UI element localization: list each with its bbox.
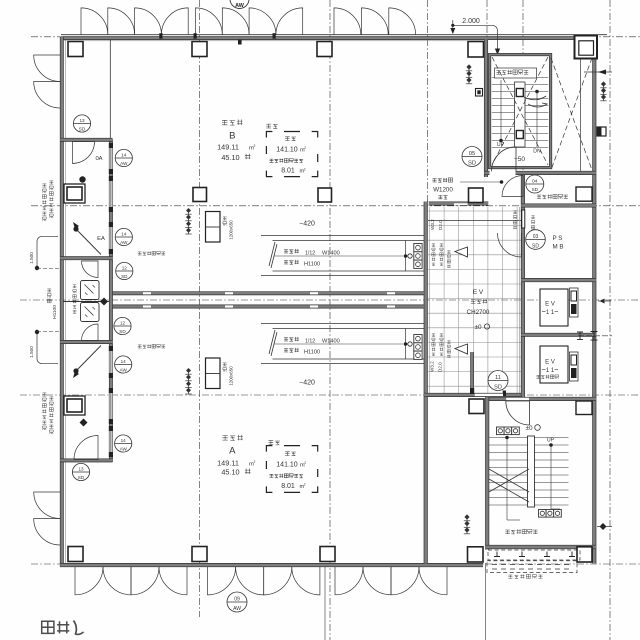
svg-text:2: 2: [304, 461, 306, 465]
svg-text:A: A: [229, 446, 236, 457]
arrow marker right mid: [600, 299, 605, 304]
svg-text:W1400: W1400: [322, 251, 340, 257]
svg-text:CH2700: CH2700: [467, 309, 490, 316]
svg-text:12: 12: [122, 265, 128, 270]
dot above equipment: [79, 176, 85, 182]
svg-text:03: 03: [533, 234, 539, 240]
column alarm room: [576, 187, 592, 201]
svg-text:B: B: [229, 131, 235, 142]
circle AW top edge: [230, 0, 249, 9]
top exterior wall: [61, 34, 607, 36]
svg-text:2: 2: [254, 144, 256, 148]
stairS treads: [489, 437, 569, 439]
svg-text:SD: SD: [531, 187, 538, 193]
AW window upper-1: [109, 143, 114, 174]
corridor top wall: [429, 202, 489, 205]
sink box A: [206, 358, 221, 389]
grid line vertical x=428: [427, 0, 429, 203]
svg-text:M B: M B: [553, 244, 564, 251]
label mainte vert lower: [42, 393, 46, 396]
EV2 kuruma label: [536, 375, 540, 378]
stairS X cross: [489, 469, 529, 492]
EA door diagonal lower: [76, 346, 102, 372]
stairN swirl arrows: [524, 96, 547, 107]
column porch SE: [469, 399, 484, 414]
dim leader lower-left: [37, 334, 58, 364]
svg-text:2: 2: [304, 146, 306, 150]
stairN cage: [490, 55, 551, 168]
svg-text:SD: SD: [468, 161, 476, 167]
circle 13/SD bottom: [72, 463, 89, 480]
grid line vertical x=610: [609, 0, 611, 640]
circle 11/SD: [488, 371, 508, 391]
svg-text:14: 14: [121, 359, 127, 364]
diamond stack right: [603, 82, 605, 101]
stairS bottom wall: [486, 545, 597, 549]
label wc vert: [73, 285, 77, 288]
strip cross wall 2: [60, 257, 112, 260]
sprinkler stack porch bottom: [466, 515, 468, 534]
svg-text:D2.0: D2.0: [438, 220, 443, 230]
circle 04/SD: [526, 175, 544, 193]
door arcs left wall bottom: [34, 492, 61, 519]
corridor W1200 label: [432, 179, 436, 183]
svg-text:AW: AW: [120, 161, 128, 166]
svg-text:SD: SD: [78, 475, 85, 480]
column mid A: [193, 188, 207, 202]
svg-text:1 1: 1 1: [546, 310, 555, 316]
svg-text:12: 12: [120, 320, 126, 325]
party wall upper: [110, 292, 424, 295]
entrance door arcs bottom wall: [75, 567, 103, 595]
stair-north west wall: [484, 40, 487, 178]
label madori: [42, 621, 54, 633]
svg-text:1/12: 1/12: [305, 251, 315, 257]
right block west wall: [521, 171, 524, 397]
grid line horizontal y=564: [31, 563, 640, 565]
column top C: [317, 42, 332, 57]
right corridor line: [580, 59, 582, 172]
column bottom B: [192, 547, 207, 562]
stairN UP leader: [500, 80, 502, 140]
AW window lower-1: [109, 346, 114, 378]
circle 05/SD: [462, 147, 482, 167]
svg-text:1/12: 1/12: [305, 339, 315, 345]
wc fixture 2: [81, 303, 100, 322]
stairS stringer: [528, 436, 535, 507]
hall door stub wall: [471, 352, 474, 394]
equipment box upper: [64, 184, 85, 203]
grid line vertical x=485 bottom: [485, 563, 487, 640]
sink box B: [206, 212, 221, 243]
column mid B: [318, 188, 332, 202]
svg-text:SD: SD: [79, 126, 86, 131]
circle 14/AW 4: [115, 435, 132, 452]
tick right y72: [584, 71, 612, 73]
stairS door arc: [506, 401, 530, 425]
svg-text:SD: SD: [121, 274, 128, 279]
svg-text:05: 05: [469, 151, 475, 157]
stairS hw bottom: [539, 510, 547, 518]
grid line horizontal y=37: [31, 36, 640, 38]
label uchiwake A: [269, 441, 274, 445]
svg-text:H1100: H1100: [304, 262, 320, 268]
column stairS NE: [576, 401, 592, 415]
svg-text:2: 2: [254, 460, 256, 464]
svg-text:8.01: 8.01: [281, 168, 295, 175]
hall vert text A2: [432, 334, 435, 337]
label seijo lower: [138, 345, 142, 348]
door arc 12 lower: [82, 324, 99, 341]
wc diamond: [100, 298, 108, 306]
svg-text:09: 09: [234, 596, 240, 602]
signage dashed box: [487, 561, 577, 573]
svg-text:−50: −50: [514, 156, 526, 163]
svg-text:14: 14: [121, 231, 127, 236]
PS duct marks: [522, 210, 525, 228]
svg-text:AW: AW: [120, 240, 128, 245]
svg-text:8.01: 8.01: [281, 483, 295, 490]
circle 12/SD 1: [116, 262, 133, 279]
svg-text:AW: AW: [120, 367, 128, 372]
svg-text:H1100: H1100: [52, 305, 58, 319]
grid line vertical x=200: [199, 0, 201, 617]
label tenant B title: [222, 120, 227, 125]
label seijo upper: [138, 252, 142, 255]
bottom exterior wall: [60, 563, 483, 566]
label mainte vert upper: [42, 184, 46, 187]
svg-text:0A: 0A: [95, 156, 102, 162]
label uchiwake B: [266, 124, 271, 128]
svg-text:149.11: 149.11: [217, 458, 239, 467]
party wall joints: [143, 292, 151, 294]
EV1 car box: [540, 289, 568, 326]
PS door arc: [498, 233, 522, 257]
svg-text:EA: EA: [97, 236, 105, 242]
svg-text:SD: SD: [494, 385, 502, 391]
sprinkler stack porch top: [468, 65, 470, 84]
grid line vertical x=330: [329, 0, 331, 640]
grid line horizontal y=395: [20, 394, 640, 396]
label tennai A: [285, 452, 290, 456]
label tenant A title: [222, 436, 227, 441]
circle 14/AW 2: [115, 228, 132, 245]
column top B: [192, 42, 207, 57]
diamond below equipment: [80, 419, 88, 427]
circle 14/AW 1: [115, 149, 132, 166]
svg-text:2: 2: [304, 167, 306, 171]
door arc 0A lower: [74, 436, 98, 460]
svg-text:141.10: 141.10: [276, 146, 298, 153]
stairN DN leader: [536, 92, 538, 147]
EA door diagonal upper: [76, 229, 102, 255]
label tesuri vert: [47, 289, 51, 292]
svg-text:2.000: 2.000: [462, 18, 480, 25]
svg-text:W1200: W1200: [433, 187, 453, 194]
sprinkler stack mid2: [188, 369, 190, 395]
svg-text:±0: ±0: [474, 324, 482, 331]
svg-text:149.11: 149.11: [217, 142, 239, 151]
grid line horizontal y=300: [20, 299, 640, 301]
grid line vertical x=487 top: [486, 0, 488, 52]
right corridor dashed X: [551, 58, 592, 170]
stairS hw top: [497, 427, 505, 435]
grid line horizontal y=206: [31, 205, 640, 207]
column bottom A: [68, 547, 83, 562]
diamond right y527: [600, 523, 607, 530]
equipment box lower: [64, 396, 85, 415]
wc fixture 1: [81, 281, 100, 300]
EV hall floor tile grid: [429, 207, 431, 393]
svg-text:UP: UP: [547, 438, 555, 444]
ramp B hardware: [414, 244, 422, 252]
EV2 door hw: [570, 352, 579, 381]
svg-text:AW: AW: [235, 3, 245, 9]
stairN treads: [492, 77, 549, 79]
svg-text:SD: SD: [119, 329, 126, 334]
svg-text:W3.2: W3.2: [430, 219, 435, 230]
column top D: [468, 42, 484, 58]
left exterior wall: [60, 37, 63, 567]
corridor bottom wall: [424, 393, 521, 396]
alarm room bottom wall: [521, 204, 596, 207]
entrance door arcs top wall: [81, 8, 108, 35]
svg-text:AW: AW: [120, 446, 128, 451]
EV bottom / stairS top wall: [486, 397, 597, 400]
svg-text:11: 11: [495, 375, 501, 381]
door arc 12 upper: [82, 261, 99, 278]
stairN label box: [495, 68, 537, 78]
column bottom D: [468, 547, 484, 562]
strip cross wall 3: [60, 340, 112, 343]
circle 14/AW 3: [115, 356, 132, 373]
strip cross wall 4: [60, 459, 112, 462]
svg-text:SD: SD: [532, 244, 539, 250]
label alarm room: [537, 195, 541, 199]
party wall lower: [110, 305, 424, 308]
stairS west wall: [486, 397, 489, 550]
hall vert text B2: [432, 244, 435, 247]
svg-text:13: 13: [78, 466, 84, 471]
door arc 0A upper: [73, 142, 95, 164]
column NE large: [575, 36, 598, 59]
marker square right: [597, 127, 606, 136]
svg-text:E V: E V: [545, 302, 555, 308]
circle 03/SD: [526, 230, 546, 250]
label stairS name: [505, 530, 509, 534]
svg-text:W1400: W1400: [322, 339, 340, 345]
svg-text:P S: P S: [553, 235, 563, 242]
svg-text:14: 14: [121, 152, 127, 157]
svg-text:13: 13: [79, 118, 85, 123]
square marker porch: [476, 89, 483, 97]
label mainte B: [270, 159, 274, 162]
svg-text:14: 14: [121, 438, 127, 443]
right exterior wall: [593, 57, 596, 563]
stairS south dashed strip: [488, 550, 580, 560]
grid line vertical x=325 bottom: [324, 567, 326, 640]
svg-text:1 1: 1 1: [546, 368, 555, 374]
column mid C: [469, 188, 484, 203]
uchiwake dashed box B: [266, 132, 317, 177]
EV2 car box: [540, 346, 568, 383]
EV mid wall: [521, 333, 596, 336]
ramp A hardware: [414, 335, 422, 343]
column bottom C: [320, 547, 335, 562]
tick right y335: [578, 335, 612, 337]
svg-text:E V: E V: [473, 289, 484, 296]
stairN bottom wall: [484, 171, 489, 174]
hall triangle B: [455, 247, 468, 257]
svg-text:−420: −420: [299, 380, 315, 387]
svg-text:1200x650: 1200x650: [229, 366, 234, 386]
hall triangle A: [455, 344, 468, 354]
label tennai B: [285, 137, 290, 141]
svg-text:141.10: 141.10: [276, 461, 298, 468]
ramp A: [261, 322, 424, 324]
AW window upper-2: [109, 176, 114, 212]
label mainte A: [270, 474, 274, 477]
stairS leaders: [506, 438, 508, 521]
label signage: [508, 575, 512, 578]
stairN dashed X: [492, 57, 548, 165]
label ramp A: [284, 338, 288, 342]
svg-text:AW: AW: [233, 606, 241, 612]
hall vert text escape: [513, 211, 517, 214]
svg-text:04: 04: [532, 178, 538, 184]
dim leader upper-left: [37, 236, 58, 266]
stairN door arc: [492, 147, 517, 172]
column top A: [68, 42, 83, 57]
ramp B: [261, 234, 424, 236]
alarm room door arc: [502, 176, 523, 197]
svg-text:−420: −420: [299, 221, 315, 228]
svg-text:45.10: 45.10: [221, 468, 239, 477]
EV1 door hw: [570, 288, 579, 317]
tenant east wall: [424, 202, 427, 564]
svg-text:1.500: 1.500: [29, 252, 34, 264]
strip cross wall 1: [60, 138, 112, 141]
grid line vertical x=523 top: [522, 0, 524, 170]
strip inner wall: [109, 139, 112, 462]
wc partition: [63, 301, 109, 303]
svg-text:±0: ±0: [525, 425, 533, 432]
circle 13/SD top: [73, 115, 90, 132]
column bottom E: [577, 547, 592, 562]
svg-text:W3.2: W3.2: [430, 361, 435, 372]
sprinkler stack mid: [188, 209, 190, 235]
svg-text:H1100: H1100: [304, 350, 320, 356]
svg-text:2: 2: [304, 483, 306, 487]
PS room bottom wall: [521, 278, 596, 281]
circle 09/AW: [227, 592, 247, 612]
circle 12/SD 2: [114, 317, 131, 334]
svg-text:45.10: 45.10: [221, 153, 239, 162]
svg-text:D2.0: D2.0: [438, 362, 443, 372]
label ramp B: [284, 250, 288, 254]
door arcs left wall top: [34, 55, 61, 82]
AW window lower-2: [109, 426, 114, 457]
uchiwake dashed box A: [266, 446, 317, 493]
svg-text:1.500: 1.500: [29, 346, 34, 358]
svg-text:E V: E V: [545, 360, 555, 366]
stairN stringer: [515, 82, 526, 147]
svg-text:1200x650: 1200x650: [229, 220, 234, 240]
